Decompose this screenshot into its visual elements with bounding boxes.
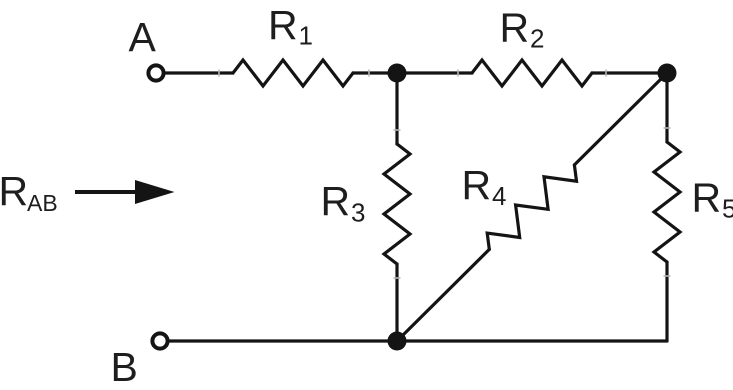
node 2 [658,64,677,83]
svg-text:5: 5 [722,194,733,224]
node 3 [388,332,407,351]
wire R1 to node 1 [353,71,397,74]
svg-text:R: R [0,168,28,214]
wire R3 to node 3 [395,264,398,341]
junction ticks [219,70,671,279]
svg-text:R: R [268,2,298,48]
svg-text:A: A [129,14,157,60]
label R4 [462,162,507,211]
label R1 [268,2,313,51]
wire node 2 down to R5 [665,73,668,142]
wire R4 to node 2 [574,73,667,165]
svg-text:R: R [500,5,530,51]
label R3 [321,178,366,228]
resistor R4 [487,165,576,250]
svg-text:R: R [462,162,492,208]
arrow RAB [75,180,175,204]
node 1 [388,64,407,83]
wire node 3 to R4 [397,249,489,341]
wire node 3 to B [170,339,397,342]
resistor R3 [384,144,410,264]
svg-text:2: 2 [530,24,544,54]
svg-text:1: 1 [299,21,313,51]
svg-text:R: R [321,178,351,224]
resistor R2 [472,60,592,86]
label R2 [500,5,545,54]
terminal B [152,333,167,348]
wire node 1 to R2 [397,71,472,74]
svg-text:R: R [692,175,722,221]
resistor R1 [233,60,353,86]
wire R5 to bottom corner [665,262,668,341]
svg-text:4: 4 [492,181,506,211]
resistor R5 [654,142,680,262]
wire node 1 down to R3 [395,73,398,144]
label RAB [0,168,58,216]
wire R2 to node 2 [592,71,667,74]
label R5 [692,175,733,224]
svg-text:AB: AB [27,190,58,216]
wire bottom corner to node 3 [397,339,667,342]
svg-text:3: 3 [351,198,365,228]
svg-text:B: B [111,344,138,390]
terminal A [148,65,163,80]
wire A to R1 [166,71,233,74]
